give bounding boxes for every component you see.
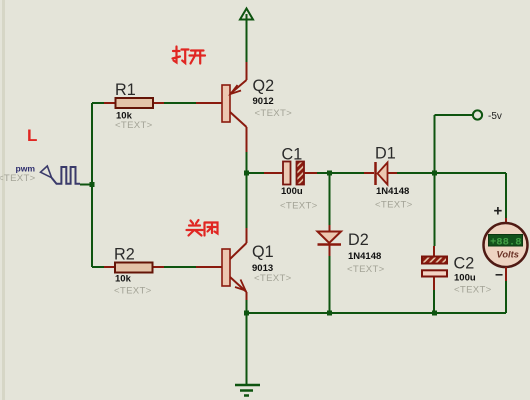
svg-text:−: − — [495, 267, 503, 283]
wire: C1 to D1 with junction — [304, 172, 317, 174]
terminal -5v — [435, 110, 502, 122]
wire: pwm to bus — [80, 184, 92, 186]
sheet edge shading left — [2, 0, 5, 400]
svg-text:1N4148: 1N4148 — [376, 186, 409, 197]
wire: node down to C2 — [434, 173, 436, 246]
resistor R1 — [115, 81, 153, 131]
svg-text:<TEXT>: <TEXT> — [0, 173, 36, 184]
svg-text:+: + — [494, 203, 503, 220]
wire: bottom rail — [247, 312, 507, 314]
wire: R2 row horizontal — [92, 266, 104, 268]
svg-text:100u: 100u — [281, 186, 303, 197]
wire: Q2 collector down to node — [246, 127, 248, 152]
ground — [235, 313, 260, 396]
node: junction pwm/bus — [90, 182, 95, 187]
wire: R1 row horizontal — [92, 102, 104, 104]
svg-text:<TEXT>: <TEXT> — [280, 201, 318, 212]
svg-text:9012: 9012 — [253, 96, 274, 107]
svg-text:<TEXT>: <TEXT> — [115, 120, 153, 131]
svg-text:Volts: Volts — [497, 250, 519, 260]
voltmeter — [484, 203, 528, 283]
power arrow top — [240, 9, 253, 63]
capacitor C1 100u — [280, 146, 318, 212]
svg-text:<TEXT>: <TEXT> — [347, 264, 385, 275]
wire: junction down to D2 — [329, 173, 331, 225]
label 关闭 (close) — [187, 220, 218, 236]
label 打开 (open) — [173, 47, 206, 64]
svg-text:pwm: pwm — [16, 164, 36, 174]
svg-text:100u: 100u — [454, 273, 476, 284]
svg-text:1N4148: 1N4148 — [348, 251, 381, 262]
svg-text:Q2: Q2 — [253, 77, 275, 95]
svg-text:D1: D1 — [375, 145, 396, 163]
svg-text:<TEXT>: <TEXT> — [454, 285, 492, 296]
svg-text:<TEXT>: <TEXT> — [254, 273, 292, 284]
svg-text:10k: 10k — [115, 274, 132, 285]
svg-text:<TEXT>: <TEXT> — [255, 108, 293, 119]
node: C1/D1/D2 junction — [327, 171, 332, 176]
svg-text:<TEXT>: <TEXT> — [114, 286, 152, 297]
svg-text:Q1: Q1 — [252, 243, 274, 261]
wire: D2 down to rail — [329, 246, 331, 257]
resistor R2 — [114, 246, 153, 297]
wire: emitter feed Q2 — [246, 62, 248, 80]
wire: voltmeter down to rail — [505, 267, 507, 281]
svg-text:-5v: -5v — [488, 111, 502, 122]
svg-text:C1: C1 — [282, 146, 303, 164]
transistor Q2 9012 — [222, 77, 292, 127]
node: rail left — [244, 311, 249, 316]
diode D2 1N4148 — [318, 231, 385, 275]
svg-text:C2: C2 — [454, 255, 475, 273]
svg-text:<TEXT>: <TEXT> — [375, 200, 413, 211]
node: Q2/Q1 output node — [244, 171, 249, 176]
svg-text:+88.8: +88.8 — [490, 236, 522, 248]
transistor Q1 9013 — [222, 243, 292, 292]
node: rail C2 — [432, 311, 437, 316]
node: D1/C2/-5v junction — [432, 171, 437, 176]
svg-text:R2: R2 — [114, 246, 135, 264]
diode D1 1N4148 — [375, 145, 413, 211]
wire: node down to Q1 collector — [246, 173, 248, 228]
wire: D1 to -5v column and voltmeter corner — [388, 172, 397, 174]
wire: C2 down to rail — [433, 278, 435, 291]
wire: Q1 emitter down to rail — [246, 292, 248, 300]
wire: node row to C1 — [248, 172, 264, 174]
wire: left vertical bus from R1 to R2 — [91, 103, 93, 267]
wire: voltmeter feed — [505, 173, 507, 218]
node: rail D2 — [327, 311, 332, 316]
signal source pwm — [0, 164, 80, 185]
svg-text:D2: D2 — [348, 231, 369, 249]
wire: -5v column down to node — [434, 115, 436, 173]
capacitor C2 100u polarized — [422, 255, 492, 296]
svg-text:L: L — [27, 126, 37, 145]
svg-text:R1: R1 — [115, 81, 136, 99]
